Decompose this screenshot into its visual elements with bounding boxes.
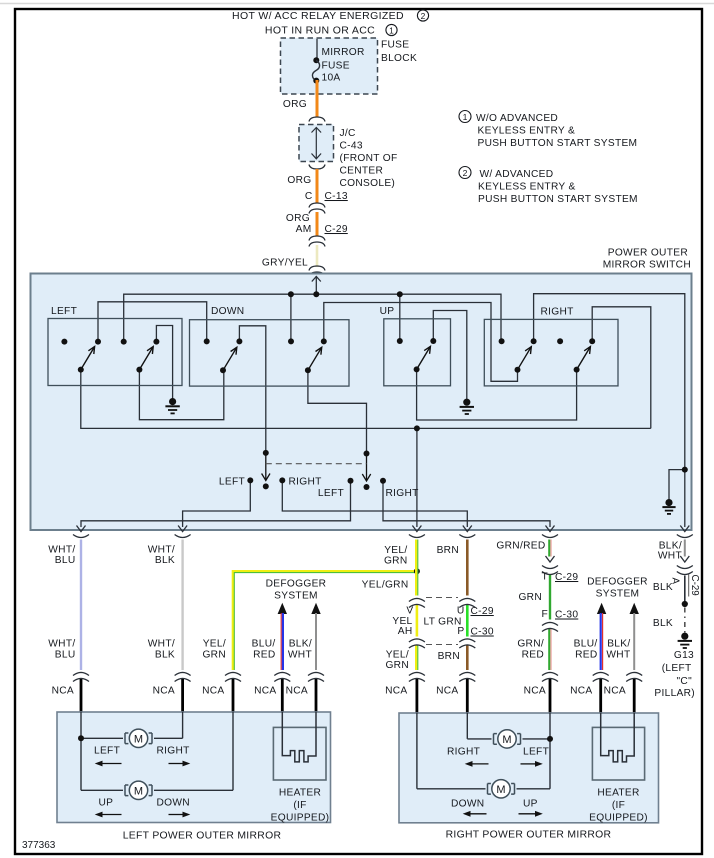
svg-text:RED: RED xyxy=(575,650,597,661)
svg-text:MIRROR SWITCH: MIRROR SWITCH xyxy=(603,260,691,271)
svg-text:POWER OUTER: POWER OUTER xyxy=(608,248,688,259)
svg-text:KEYLESS ENTRY &: KEYLESS ENTRY & xyxy=(478,126,576,137)
direction arrows right mirror xyxy=(469,764,537,814)
svg-text:BRN: BRN xyxy=(437,545,459,556)
svg-text:YEL/: YEL/ xyxy=(384,545,407,556)
svg-text:PUSH BUTTON START SYSTEM: PUSH BUTTON START SYSTEM xyxy=(478,138,638,149)
svg-text:RIGHT: RIGHT xyxy=(447,747,480,758)
junction dot YEL/GRN output xyxy=(414,425,420,431)
ground (middle, inside switch) xyxy=(460,399,474,414)
svg-text:GRN: GRN xyxy=(202,650,226,661)
BLK dash-dot to ground xyxy=(684,608,686,634)
contact dots UP box xyxy=(397,338,437,372)
svg-text:RED: RED xyxy=(253,650,275,661)
circled 2 (header) xyxy=(417,10,428,21)
svg-text:HEATER: HEATER xyxy=(279,788,321,799)
svg-text:U: U xyxy=(457,606,465,617)
selector B (mirror select switch) xyxy=(364,451,370,457)
svg-text:RIGHT: RIGHT xyxy=(157,746,190,757)
svg-text:WHT: WHT xyxy=(606,650,630,661)
ground G13 xyxy=(678,633,692,648)
splice dot xyxy=(682,601,688,607)
svg-text:RED: RED xyxy=(522,650,544,661)
wire: LEFT.D to ground xyxy=(156,326,172,400)
svg-text:BLK/: BLK/ xyxy=(607,639,630,650)
svg-text:FUSE: FUSE xyxy=(322,61,350,72)
exit arrow GRN/RED xyxy=(546,526,555,532)
svg-text:NCA: NCA xyxy=(153,686,175,697)
svg-text:LEFT: LEFT xyxy=(523,747,549,758)
svg-text:BLU/: BLU/ xyxy=(252,639,276,650)
svg-text:1: 1 xyxy=(389,25,394,35)
svg-text:J/C: J/C xyxy=(340,128,356,139)
direction arrows left mirror xyxy=(101,764,184,815)
legend 2: W/ ADVANCED xyxy=(459,167,471,179)
defogger arrow BLK/WHT (left) xyxy=(311,603,320,614)
svg-text:NCA: NCA xyxy=(385,686,407,697)
wire YEL/GRN branch (left mirror) xyxy=(233,571,417,670)
svg-text:P: P xyxy=(457,626,464,637)
wire: UP contact2 to ground xyxy=(433,311,467,400)
sub-box UP xyxy=(384,319,451,386)
legend 1: W/O ADVANCED xyxy=(459,111,471,123)
svg-text:W/O ADVANCED: W/O ADVANCED xyxy=(476,113,558,124)
svg-text:WHT: WHT xyxy=(658,551,682,562)
svg-text:UP: UP xyxy=(523,799,538,810)
wire: RIGHT contact2 to BLK/WHT feed xyxy=(534,294,685,527)
svg-text:KEYLESS ENTRY &: KEYLESS ENTRY & xyxy=(478,182,576,193)
contact dots DOWN box xyxy=(204,338,327,373)
connector C-30 arcs xyxy=(409,639,475,648)
svg-text:LEFT: LEFT xyxy=(318,488,344,499)
svg-text:GRN: GRN xyxy=(384,556,408,567)
svg-text:UP: UP xyxy=(99,798,114,809)
svg-text:10A: 10A xyxy=(322,72,341,83)
svg-text:GRN/: GRN/ xyxy=(517,639,544,650)
svg-text:ORG: ORG xyxy=(283,99,307,110)
wire: UP pivot to RIGHT pivot2 xyxy=(417,369,577,420)
switch arm DOWN 2 xyxy=(308,347,322,370)
svg-text:BLK: BLK xyxy=(653,618,673,629)
svg-text:BRN: BRN xyxy=(438,651,460,662)
heater box (right mirror) xyxy=(592,727,644,780)
exit arrow YEL/GRN xyxy=(412,526,421,532)
wire: RIGHT contact4 to output bus xyxy=(592,307,651,429)
svg-text:BLK: BLK xyxy=(155,555,175,566)
svg-text:HEATER: HEATER xyxy=(597,788,639,799)
svg-text:CENTER: CENTER xyxy=(340,166,384,177)
svg-text:F: F xyxy=(541,609,548,620)
svg-text:PUSH BUTTON START SYSTEM: PUSH BUTTON START SYSTEM xyxy=(478,194,638,205)
svg-text:RIGHT POWER OUTER MIRROR: RIGHT POWER OUTER MIRROR xyxy=(446,830,612,841)
svg-text:"C": "C" xyxy=(677,676,693,687)
selector A (mirror select switch) xyxy=(263,450,269,456)
svg-text:GRY/YEL: GRY/YEL xyxy=(262,258,308,269)
fuse block (dashed box) xyxy=(281,38,378,94)
svg-text:GRN/RED: GRN/RED xyxy=(496,541,545,552)
switch arm RIGHT 2 xyxy=(577,347,591,370)
svg-text:BLU: BLU xyxy=(55,650,76,661)
top separator line xyxy=(0,3,714,5)
svg-text:C-29: C-29 xyxy=(689,575,700,596)
svg-text:ORG: ORG xyxy=(286,213,310,224)
svg-text:RIGHT: RIGHT xyxy=(386,488,419,499)
entry arrow into switch xyxy=(312,276,321,294)
svg-text:NCA: NCA xyxy=(436,686,458,697)
motor M1 (right mirror, right/left) xyxy=(494,730,521,748)
svg-text:EQUIPPED): EQUIPPED) xyxy=(589,813,648,824)
connector C-29 (arc pair) xyxy=(309,236,325,241)
switch arm LEFT 2 xyxy=(139,347,153,370)
wire: DOWN contact2 to selector A arm xyxy=(239,326,265,453)
svg-text:M: M xyxy=(134,785,143,797)
svg-text:LT GRN: LT GRN xyxy=(424,617,462,628)
wire into fuse xyxy=(316,39,318,60)
wire: LEFT pivot1 to YEL/GRN output bus xyxy=(81,370,651,429)
wire BLK/WHT to C-29 xyxy=(684,540,686,557)
exit arrow BLK/WHT xyxy=(680,526,689,532)
svg-text:EQUIPPED): EQUIPPED) xyxy=(271,813,330,824)
wire: selector A left contact to WHT/BLK exit xyxy=(183,480,251,527)
selector A contacts xyxy=(247,477,253,483)
svg-text:GRN: GRN xyxy=(385,660,409,671)
motor M1 (left mirror, left/right) xyxy=(125,729,152,747)
wire: selector A right contact to BRN exit xyxy=(282,480,467,527)
svg-text:LEFT POWER OUTER MIRROR: LEFT POWER OUTER MIRROR xyxy=(123,831,282,842)
svg-text:377363: 377363 xyxy=(22,840,56,851)
svg-text:WHT/: WHT/ xyxy=(148,639,175,650)
svg-text:NCA: NCA xyxy=(202,686,224,697)
svg-text:RIGHT: RIGHT xyxy=(541,307,574,318)
wire ORG fuse to J/C xyxy=(316,80,319,118)
sub-box DOWN xyxy=(190,320,350,386)
wire BRN (right mirror column) xyxy=(466,540,469,596)
exit arrows at bottom of switch box xyxy=(73,526,693,538)
svg-text:V: V xyxy=(406,606,413,617)
wire: bus drop to UP contact 1 xyxy=(399,294,401,341)
motor M2 (right mirror, down/up) xyxy=(488,780,515,798)
dashed mechanical link between selectors xyxy=(266,463,367,465)
switch arm RIGHT 1 xyxy=(518,347,532,370)
svg-text:YEL/GRN: YEL/GRN xyxy=(362,580,409,591)
svg-text:NCA: NCA xyxy=(524,686,546,697)
svg-text:WHT: WHT xyxy=(288,650,312,661)
connector F C-30 xyxy=(542,622,558,631)
svg-text:(IF: (IF xyxy=(293,800,306,811)
svg-text:(FRONT OF: (FRONT OF xyxy=(340,153,398,164)
defogger arrow BLU/RED (left) xyxy=(278,603,287,614)
junction dot YEL/GRN xyxy=(414,568,420,574)
double arrow inside J/C xyxy=(312,128,322,159)
defogger arrow BLU/RED (right) xyxy=(597,603,606,614)
circled 1 (header) xyxy=(386,24,397,35)
svg-text:(LEFT: (LEFT xyxy=(662,663,692,674)
SWITCHBODY xyxy=(81,294,685,527)
svg-text:2: 2 xyxy=(421,11,426,21)
svg-text:DEFOGGER: DEFOGGER xyxy=(266,579,327,590)
svg-text:C-30: C-30 xyxy=(555,610,578,621)
wire WHT/BLK xyxy=(181,540,183,671)
connector T C-29 xyxy=(542,556,558,575)
svg-text:MIRROR: MIRROR xyxy=(322,47,365,58)
svg-text:W/ ADVANCED: W/ ADVANCED xyxy=(480,169,554,180)
left mirror inner wires xyxy=(81,712,233,790)
mirror fuse 10A symbol xyxy=(313,57,319,63)
svg-text:WHT/: WHT/ xyxy=(148,545,175,556)
svg-text:BLK: BLK xyxy=(653,582,673,593)
svg-text:DOWN: DOWN xyxy=(451,799,484,810)
BLK/WHT ground branch (right, inside switch) xyxy=(669,470,685,500)
svg-text:FUSE: FUSE xyxy=(381,40,409,51)
ground (left, inside switch) xyxy=(165,399,179,414)
svg-text:C-29: C-29 xyxy=(471,606,494,617)
junction dots on bus xyxy=(288,291,403,297)
wire: LEFT pivot2 to DOWN pivot1 xyxy=(139,370,223,420)
wire: DOWN pivot2 to selector B arm xyxy=(308,370,367,453)
heater box (left mirror) xyxy=(273,727,326,780)
svg-text:BLU/: BLU/ xyxy=(574,639,598,650)
svg-text:DOWN: DOWN xyxy=(157,798,190,809)
wire YEL/GRN (right mirror column) xyxy=(416,540,418,671)
contact dots LEFT box xyxy=(61,339,159,373)
svg-text:M: M xyxy=(496,784,505,796)
svg-text:GRN: GRN xyxy=(518,592,542,603)
svg-text:LEFT: LEFT xyxy=(219,477,245,488)
svg-text:C: C xyxy=(305,191,313,202)
svg-text:BLK: BLK xyxy=(155,650,175,661)
svg-text:WHT/: WHT/ xyxy=(48,545,75,556)
svg-text:ORG: ORG xyxy=(287,175,311,186)
wire: selector B left contact to WHT/BLU exit xyxy=(81,481,351,527)
selector B contacts xyxy=(348,478,354,484)
exit arrow WHT/BLK xyxy=(178,526,187,532)
exit half connectors xyxy=(73,535,89,538)
svg-text:C-29: C-29 xyxy=(555,572,578,583)
connector C-29 arcs (V,U) xyxy=(409,598,475,607)
wire: YEL/GRN output drop xyxy=(416,428,418,527)
svg-text:C-29: C-29 xyxy=(325,224,348,235)
svg-text:2: 2 xyxy=(463,168,468,178)
svg-text:LEFT: LEFT xyxy=(51,306,77,317)
J/C C-43 junction (dashed box) xyxy=(299,125,334,162)
svg-text:YEL/: YEL/ xyxy=(386,650,409,661)
sub-box LEFT xyxy=(48,319,182,386)
svg-text:NCA: NCA xyxy=(604,686,626,697)
connector arc above J/C xyxy=(309,117,325,122)
svg-text:SYSTEM: SYSTEM xyxy=(596,589,640,600)
connector A C-29 (rotated) xyxy=(677,556,693,575)
ground (right, inside switch) xyxy=(662,500,675,514)
wire: LEFT.B to DOWN contact 1 xyxy=(98,302,207,342)
wire: bus drop to DOWN contact 3 xyxy=(290,294,292,341)
defogger arrow BLK/WHT (right) xyxy=(630,603,639,614)
connector at switch box entry (arc pair) xyxy=(309,266,325,271)
svg-text:BLOCK: BLOCK xyxy=(381,53,417,64)
svg-text:RIGHT: RIGHT xyxy=(289,477,322,488)
left power outer mirror box xyxy=(57,712,331,823)
svg-text:YEL/: YEL/ xyxy=(203,639,226,650)
wire: power bus xyxy=(124,294,501,341)
svg-text:LEFT: LEFT xyxy=(94,746,120,757)
svg-text:SYSTEM: SYSTEM xyxy=(274,591,318,602)
wire GRN/RED (right mirror column) xyxy=(549,540,551,671)
svg-text:M: M xyxy=(502,734,511,746)
svg-text:AH: AH xyxy=(398,626,413,637)
right mirror inner wires xyxy=(417,713,550,789)
black leads to mirror boxes xyxy=(81,679,634,713)
NCA labels xyxy=(52,686,626,697)
svg-text:NCA: NCA xyxy=(286,686,308,697)
sub-box RIGHT xyxy=(484,319,618,386)
right power outer mirror box xyxy=(399,713,659,823)
power outer mirror switch (main box) xyxy=(31,274,692,531)
svg-text:NCA: NCA xyxy=(52,686,74,697)
svg-text:NCA: NCA xyxy=(254,686,276,697)
switch arm LEFT 1 xyxy=(81,347,95,370)
exit arrow BRN xyxy=(463,526,472,532)
svg-text:T: T xyxy=(541,572,548,583)
svg-text:PILLAR): PILLAR) xyxy=(654,688,695,699)
svg-text:HOT W/ ACC RELAY ENERGIZED: HOT W/ ACC RELAY ENERGIZED xyxy=(232,10,404,22)
exit arrow WHT/BLU xyxy=(77,526,86,532)
svg-text:(IF: (IF xyxy=(612,800,625,811)
switch arm UP xyxy=(417,346,431,369)
svg-text:NCA: NCA xyxy=(570,686,592,697)
svg-text:C-30: C-30 xyxy=(471,627,494,638)
svg-text:UP: UP xyxy=(380,306,395,317)
wire: DOWN contact4 to RIGHT pivot1 xyxy=(324,303,518,382)
NCA connectors and leads into mirrors xyxy=(73,672,642,681)
motor M2 (left mirror, up/down) xyxy=(125,781,152,799)
wire ORG C-13 to C-29 xyxy=(316,212,319,237)
svg-text:DEFOGGER: DEFOGGER xyxy=(587,577,648,588)
svg-text:BLK/: BLK/ xyxy=(289,639,312,650)
svg-text:M: M xyxy=(134,733,143,745)
svg-text:1: 1 xyxy=(463,112,468,122)
svg-text:G13: G13 xyxy=(674,650,694,661)
svg-text:AM: AM xyxy=(296,224,312,235)
svg-text:C-43: C-43 xyxy=(340,141,363,152)
svg-text:DOWN: DOWN xyxy=(211,306,244,317)
switch arm DOWN 1 xyxy=(223,347,237,370)
svg-text:BLU: BLU xyxy=(55,555,76,566)
wire ORG J/C to C-13 xyxy=(316,169,319,203)
wire GRY/YEL xyxy=(316,245,319,267)
wire BLK to splice xyxy=(684,576,686,603)
heater element (right mirror) xyxy=(601,713,635,762)
connector C-13 (arc pair) xyxy=(309,203,325,208)
svg-text:CONSOLE): CONSOLE) xyxy=(340,178,396,189)
heater element (left mirror) xyxy=(282,712,316,762)
svg-text:HOT IN RUN OR ACC: HOT IN RUN OR ACC xyxy=(265,25,375,37)
connector arc below J/C xyxy=(309,165,325,170)
contact dots RIGHT box xyxy=(499,338,596,373)
wire: selector B right contact to GRN/RED exit xyxy=(383,481,550,527)
svg-text:C-13: C-13 xyxy=(325,191,348,202)
svg-text:WHT/: WHT/ xyxy=(48,639,75,650)
wire WHT/BLU xyxy=(80,540,82,671)
